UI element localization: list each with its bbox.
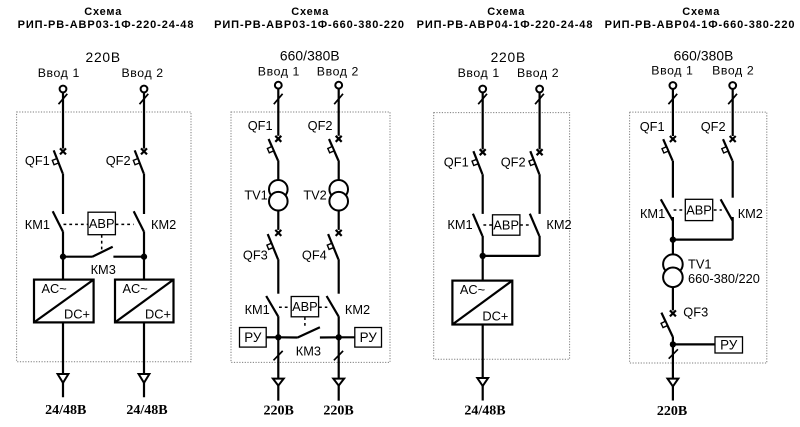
svg-text:Схема: Схема [84, 6, 122, 18]
svg-text:РИП-РВ-АВР03-1Ф-220-24-48: РИП-РВ-АВР03-1Ф-220-24-48 [18, 19, 195, 31]
svg-text:Схема: Схема [291, 6, 329, 18]
svg-text:QF3: QF3 [683, 304, 708, 319]
svg-text:КМ1: КМ1 [640, 206, 665, 221]
svg-text:КМ1: КМ1 [245, 302, 270, 317]
svg-text:РУ: РУ [720, 338, 738, 353]
svg-text:AC~: AC~ [42, 281, 67, 296]
svg-text:220В: 220В [491, 50, 526, 65]
svg-text:TV2: TV2 [303, 187, 326, 202]
svg-text:220В: 220В [323, 403, 353, 418]
svg-text:РУ: РУ [360, 330, 378, 345]
svg-text:QF2: QF2 [106, 153, 131, 168]
svg-text:QF2: QF2 [701, 119, 726, 134]
svg-text:660/380В: 660/380В [674, 48, 734, 63]
svg-text:РИП-РВ-АВР03-1Ф-660-380-220: РИП-РВ-АВР03-1Ф-660-380-220 [214, 19, 405, 31]
svg-text:DC+: DC+ [482, 309, 508, 324]
svg-text:КМ2: КМ2 [738, 206, 763, 221]
svg-text:Ввод 1: Ввод 1 [38, 66, 80, 80]
svg-text:КМ2: КМ2 [546, 217, 571, 232]
svg-text:TV1: TV1 [244, 187, 267, 202]
svg-text:AC~: AC~ [460, 282, 485, 297]
svg-text:АВР: АВР [292, 299, 318, 314]
svg-text:Ввод 1: Ввод 1 [458, 66, 500, 80]
svg-text:Ввод 2: Ввод 2 [712, 64, 754, 78]
svg-text:КМ3: КМ3 [296, 344, 321, 359]
svg-text:AC~: AC~ [123, 281, 148, 296]
svg-text:220В: 220В [85, 50, 120, 65]
svg-text:Ввод 2: Ввод 2 [121, 66, 163, 80]
svg-text:Схема: Схема [487, 6, 525, 18]
svg-text:КМ2: КМ2 [345, 302, 370, 317]
svg-text:КМ1: КМ1 [25, 217, 50, 232]
svg-text:РИП-РВ-АВР04-1Ф-220-24-48: РИП-РВ-АВР04-1Ф-220-24-48 [417, 19, 594, 31]
svg-text:Ввод 2: Ввод 2 [317, 65, 359, 79]
svg-text:24/48В: 24/48В [45, 403, 86, 418]
svg-text:DC+: DC+ [145, 306, 171, 321]
svg-text:Схема: Схема [682, 6, 720, 18]
svg-text:КМ2: КМ2 [151, 217, 176, 232]
svg-text:КМ3: КМ3 [91, 262, 116, 277]
svg-text:АВР: АВР [89, 216, 115, 231]
svg-text:QF1: QF1 [444, 154, 469, 169]
svg-text:АВР: АВР [686, 202, 712, 217]
svg-text:QF3: QF3 [243, 248, 268, 263]
svg-text:QF1: QF1 [25, 153, 50, 168]
svg-text:24/48В: 24/48В [464, 403, 505, 418]
svg-text:РУ: РУ [244, 330, 262, 345]
svg-text:QF4: QF4 [302, 248, 327, 263]
svg-text:АВР: АВР [493, 217, 519, 232]
svg-text:QF1: QF1 [640, 119, 665, 134]
svg-text:QF1: QF1 [248, 118, 273, 133]
svg-text:Ввод 1: Ввод 1 [258, 65, 300, 79]
svg-text:Ввод 1: Ввод 1 [651, 64, 693, 78]
svg-text:КМ1: КМ1 [447, 217, 472, 232]
svg-text:DC+: DC+ [64, 306, 90, 321]
svg-text:660/380В: 660/380В [280, 48, 340, 63]
svg-text:QF2: QF2 [308, 118, 333, 133]
svg-text:TV1: TV1 [688, 257, 711, 272]
svg-text:QF2: QF2 [501, 154, 526, 169]
svg-text:РИП-РВ-АВР04-1Ф-660-380-220: РИП-РВ-АВР04-1Ф-660-380-220 [605, 19, 796, 31]
svg-text:Ввод 2: Ввод 2 [517, 66, 559, 80]
svg-text:660-380/220: 660-380/220 [688, 271, 760, 286]
svg-text:220В: 220В [657, 404, 687, 419]
svg-text:220В: 220В [264, 403, 294, 418]
svg-text:24/48В: 24/48В [126, 403, 167, 418]
